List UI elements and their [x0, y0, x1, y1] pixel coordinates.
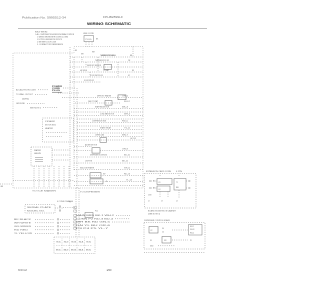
wire door switch FZ	[70, 81, 101, 83]
terminal pin 3	[189, 180, 190, 181]
wire compressor run	[77, 122, 143, 124]
wire plug pin 2	[88, 42, 90, 47]
legend pin 3	[57, 226, 59, 228]
wire valve 2	[52, 154, 70, 156]
run capacitor C1	[100, 138, 107, 143]
svg-text:S4: S4	[79, 242, 84, 244]
wire plug pin 1	[85, 42, 87, 47]
wire K3 top stub	[159, 174, 161, 177]
wire outlet	[35, 94, 48, 96]
svg-text:S1: S1	[56, 242, 61, 244]
connector pin P2	[74, 210, 77, 212]
svg-text:FPHB2899LF: FPHB2899LF	[103, 15, 124, 19]
svg-text:BK-11: BK-11	[122, 161, 128, 163]
wire drop 1	[33, 166, 35, 188]
legend pin wire 4	[60, 229, 70, 231]
wire overload	[77, 136, 143, 138]
wire main conn row 1	[116, 215, 130, 217]
legend pin wire 5	[60, 232, 70, 234]
svg-text:B2: B2	[64, 250, 69, 252]
wire exit left stub	[0, 183, 13, 185]
terminal pin 4	[189, 187, 190, 188]
wire heater loop	[74, 169, 143, 171]
wire T2 to pin4	[186, 187, 189, 189]
svg-text:WH-12: WH-12	[124, 167, 130, 169]
wire relay to transformer	[172, 229, 188, 231]
svg-text:(SEE NOTE 3): (SEE NOTE 3)	[148, 214, 161, 216]
dip cell divider 1	[61, 239, 63, 253]
svg-text:YL-6: YL-6	[124, 127, 130, 129]
wire valve 1	[52, 149, 70, 151]
terminal strip box	[189, 225, 203, 236]
wire junction drop A	[97, 57, 99, 72]
wire K4 drop 2	[167, 192, 169, 199]
svg-text:LIGHTS: LIGHTS	[85, 161, 92, 163]
wire pin1 to K3	[151, 180, 157, 182]
connector pin row 1	[74, 215, 76, 217]
svg-text:PLUG: PLUG	[86, 39, 93, 41]
wire K4 drop	[159, 192, 161, 199]
wire junction drop B	[117, 62, 119, 77]
wire start relay	[77, 129, 143, 131]
cabinet outline (dashed)	[13, 47, 143, 189]
wire drop 7	[63, 166, 65, 188]
connector pin P1	[74, 206, 77, 208]
svg-text:K4: K4	[159, 189, 161, 191]
svg-text:BK: BK	[75, 50, 77, 52]
wire junction drop C	[132, 47, 134, 58]
svg-text:P12: P12	[95, 210, 98, 212]
svg-text:B4: B4	[79, 250, 84, 252]
connector pin row 4	[74, 224, 76, 226]
legend leader 3	[35, 225, 54, 227]
wire auger left	[74, 150, 92, 152]
wire dispenser solenoid	[74, 156, 143, 158]
terminal pin 1	[149, 180, 150, 181]
svg-text:MODEL NO.: MODEL NO.	[27, 210, 46, 212]
legend pin 2	[57, 222, 59, 224]
svg-text:NC: NC	[153, 180, 155, 182]
dip switch box	[54, 237, 95, 254]
svg-text:BK-12: BK-12	[190, 226, 194, 228]
svg-text:DOOR SW FZ: DOOR SW FZ	[84, 80, 94, 82]
svg-text:S2: S2	[64, 242, 69, 244]
svg-text:DISPENSER CONTROL BOARD: DISPENSER CONTROL BOARD	[144, 219, 171, 222]
wire water valve return	[74, 175, 143, 177]
svg-text:B3: B3	[71, 250, 76, 252]
auger motor M3	[92, 148, 100, 153]
svg-text:DEFROST SENSOR: DEFROST SENSOR	[87, 65, 102, 67]
svg-text:HI SIDE: HI SIDE	[80, 70, 87, 72]
svg-text:(60HZ): (60HZ)	[22, 98, 30, 100]
legend pin wire 3	[60, 225, 70, 227]
wire jog 1	[81, 57, 83, 62]
wire S5 out	[172, 239, 188, 241]
relay K1	[90, 179, 103, 184]
ice maker assembly box	[43, 118, 74, 142]
dip box middle rule	[56, 245, 92, 247]
svg-text:TO DISPENSER: TO DISPENSER	[80, 191, 101, 193]
svg-text:GN GREEN: GN GREEN	[14, 226, 33, 228]
wire ice maker internal	[46, 132, 68, 134]
serial tag box	[25, 205, 55, 214]
wire pin2 to K4	[151, 187, 157, 189]
svg-text:COMPRESSOR RUN: COMPRESSOR RUN	[92, 120, 107, 122]
legend pin wire 1	[60, 218, 70, 220]
wire gnd run	[158, 245, 175, 247]
svg-text:WIRING SCHEMATIC: WIRING SCHEMATIC	[87, 22, 131, 26]
svg-text:B1: B1	[56, 250, 61, 252]
wire T2 drop	[178, 190, 180, 198]
wire valve 3	[52, 159, 70, 161]
svg-text:P9: P9	[69, 202, 71, 204]
defrost heater HTR1	[118, 95, 126, 100]
defrost thermostat TS1	[105, 101, 112, 106]
defrost sensor S1	[104, 64, 112, 69]
svg-text:OR-1: OR-1	[122, 95, 128, 97]
svg-text:K6: K6	[162, 228, 164, 230]
svg-text:C4: C4	[162, 232, 164, 234]
svg-text:TO WALL OUTLET: TO WALL OUTLET	[16, 93, 33, 96]
svg-text:LINE CORD: LINE CORD	[83, 33, 95, 35]
wire defrost thermostat	[75, 102, 120, 104]
wire hi-side thermostat	[70, 71, 143, 73]
switch S5 box	[162, 237, 171, 244]
wire drop 2	[38, 166, 40, 188]
svg-text:Publication No. 5995512-34: Publication No. 5995512-34	[22, 15, 67, 19]
legend pin wire 2	[60, 222, 70, 224]
svg-text:REL: REL	[176, 187, 179, 189]
svg-text:N: N	[106, 181, 107, 183]
power cord underline	[52, 91, 62, 93]
svg-text:WH: WH	[81, 53, 84, 55]
svg-text:BU: BU	[132, 70, 134, 72]
wire drop 6	[58, 166, 60, 188]
svg-text:BN: BN	[130, 55, 132, 57]
wire drop 5	[53, 166, 55, 188]
wire neutral return	[74, 181, 143, 183]
wire board bottom run	[144, 252, 205, 254]
wire plug pin 3	[91, 42, 93, 47]
svg-text:RD-5: RD-5	[122, 120, 128, 122]
wire cond fan	[74, 115, 143, 117]
control board outline	[144, 223, 205, 250]
wire ground run	[27, 103, 45, 105]
wire light circuit	[74, 162, 143, 164]
terminal board outline	[145, 174, 197, 209]
dip cell divider 2	[69, 239, 71, 253]
solenoid L2	[90, 173, 101, 178]
terminal pin 2	[149, 187, 150, 188]
svg-text:WH BK RD GN-5: WH BK RD GN-5	[76, 222, 110, 224]
svg-text:RD RED: RD RED	[14, 230, 30, 232]
svg-text:GY: GY	[128, 75, 130, 77]
svg-text:CONN P2 RD-3 BU-4: CONN P2 RD-3 BU-4	[76, 218, 113, 220]
wire thermistor FF	[70, 56, 143, 58]
svg-text:20: 20	[107, 268, 113, 272]
wire serial to pins	[55, 207, 63, 209]
svg-text:J3: J3	[161, 201, 163, 203]
svg-text:YL-14: YL-14	[126, 179, 132, 181]
svg-text:RD-13: RD-13	[124, 173, 130, 175]
wire auger feed	[74, 146, 92, 148]
wire bus neutral vertical	[73, 57, 75, 170]
wire jog 3	[89, 72, 91, 77]
legend pin 4	[57, 229, 59, 231]
svg-text:BU-2: BU-2	[124, 101, 130, 103]
svg-text:BU-10: BU-10	[124, 155, 130, 157]
svg-text:B5: B5	[86, 250, 91, 252]
legend pin 5	[57, 233, 59, 235]
wire drop 4	[48, 166, 50, 188]
svg-text:P1: P1	[190, 240, 192, 242]
svg-text:THERMISTOR FF: THERMISTOR FF	[100, 55, 114, 57]
wire main run 120V	[62, 97, 143, 99]
control relay K2	[149, 227, 158, 234]
legend leader 2	[35, 222, 54, 224]
wire compressor start	[77, 125, 143, 127]
svg-text:5. CONNECTOR REFERENCE: 5. CONNECTOR REFERENCE	[37, 44, 64, 46]
wire bus L1 vertical	[69, 47, 71, 188]
wire center drop 1	[75, 188, 77, 237]
wire defrost sensor	[70, 66, 143, 68]
wire main conn row 3	[112, 221, 130, 223]
water valve box	[31, 147, 52, 166]
water valve coil	[35, 158, 43, 162]
connector pin row 5	[74, 227, 76, 229]
wire door switch FF	[70, 76, 143, 78]
legend leader 5	[35, 232, 54, 234]
connector pin row 3	[74, 221, 76, 223]
wire evap fan	[74, 108, 143, 110]
wire N to bus	[58, 92, 80, 94]
svg-text:OR-9: OR-9	[122, 148, 128, 150]
wire see-note leader	[43, 107, 58, 109]
legend leader 1	[35, 218, 54, 220]
wire T2 top stub	[178, 174, 180, 177]
svg-text:RD-14: RD-14	[190, 232, 194, 234]
legend leader 4	[35, 229, 54, 231]
wire run capacitor	[77, 139, 143, 141]
svg-text:T2: T2	[176, 182, 178, 184]
header rule	[18, 27, 207, 29]
wire bottom run	[13, 180, 74, 182]
svg-text:BK-3: BK-3	[122, 106, 128, 108]
wire cond fan return	[77, 118, 143, 120]
wire drop 8	[68, 166, 70, 188]
tag pin 2	[59, 210, 61, 212]
interlock plug P1 box	[84, 36, 94, 42]
relay K3 box	[157, 179, 172, 185]
svg-text:EXPANSION CARD CONN: EXPANSION CARD CONN	[146, 170, 172, 173]
transformer T2 box	[174, 179, 186, 191]
svg-text:BN-7: BN-7	[122, 134, 128, 136]
svg-text:GROUND: GROUND	[16, 103, 26, 105]
svg-text:SEE NOTE 4: SEE NOTE 4	[30, 107, 41, 109]
wire L1 to bus	[63, 87, 75, 89]
svg-text:GY-8: GY-8	[130, 138, 136, 140]
svg-text:K2: K2	[151, 230, 153, 232]
svg-text:WH WHITE: WH WHITE	[14, 223, 31, 225]
svg-text:THERMISTOR FZ: THERMISTOR FZ	[95, 60, 109, 62]
svg-text:J4: J4	[176, 201, 178, 203]
wire T2 to pin3	[186, 180, 189, 182]
svg-text:GN YL BU OR-6: GN YL BU OR-6	[76, 225, 110, 227]
svg-text:S3: S3	[71, 242, 76, 244]
svg-text:63/12: 63/12	[18, 268, 28, 272]
svg-text:MOTOR MOD: MOTOR MOD	[45, 125, 57, 127]
wire jog 2	[85, 62, 87, 67]
wire thermistor FZ	[70, 61, 143, 63]
wire evap fan return	[74, 111, 143, 113]
wire ice maker internal 2	[46, 136, 62, 138]
svg-text:DOOR SWITCH FF: DOOR SWITCH FF	[90, 75, 103, 77]
svg-text:P3 P4 P5 YL-7: P3 P4 P5 YL-7	[76, 228, 108, 230]
dip cell divider 3	[76, 239, 78, 253]
wire bus ground vertical	[76, 88, 78, 188]
svg-text:K3: K3	[159, 182, 161, 184]
connector J5 shell	[85, 213, 93, 218]
wire center drop 2	[78, 188, 80, 237]
svg-text:A CAUTION 115V: A CAUTION 115V	[16, 88, 37, 91]
wire caution to plug	[38, 89, 48, 91]
wire auger right	[100, 150, 143, 152]
wire relay return	[77, 132, 143, 134]
svg-text:WH-4: WH-4	[124, 113, 130, 115]
wire tag out	[63, 207, 75, 209]
svg-text:WH-13: WH-13	[190, 229, 195, 231]
relay K4 box	[157, 186, 170, 192]
legend pin 1	[57, 219, 59, 221]
wire ground return	[74, 184, 143, 186]
svg-text:YL YELLOW: YL YELLOW	[14, 233, 33, 235]
wire main conn row 2	[115, 218, 130, 220]
wire drop 3	[43, 166, 45, 188]
dip cell divider 4	[84, 239, 86, 253]
svg-text:DISPENSER SOLENOID: DISPENSER SOLENOID	[90, 155, 108, 157]
svg-text:PLUG: PLUG	[52, 90, 61, 92]
tag pin 1	[59, 206, 61, 208]
svg-text:J2: J2	[148, 201, 150, 203]
svg-text:BOARD MOUNTED IN CABINET: BOARD MOUNTED IN CABINET	[148, 209, 176, 212]
connector pin row 2	[74, 218, 76, 220]
svg-text:WV: WV	[103, 174, 105, 176]
svg-text:S5: S5	[150, 240, 152, 242]
svg-text:S5: S5	[86, 242, 91, 244]
